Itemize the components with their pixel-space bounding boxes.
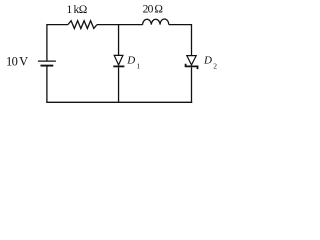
svg-text:1 kΩ: 1 kΩ (67, 4, 88, 16)
svg-text:D: D (203, 54, 212, 66)
svg-text:20 Ω: 20 Ω (143, 4, 164, 16)
svg-text:2: 2 (213, 62, 217, 71)
svg-text:D: D (126, 55, 135, 67)
svg-text:10 V: 10 V (6, 55, 28, 69)
svg-text:1: 1 (137, 61, 141, 70)
